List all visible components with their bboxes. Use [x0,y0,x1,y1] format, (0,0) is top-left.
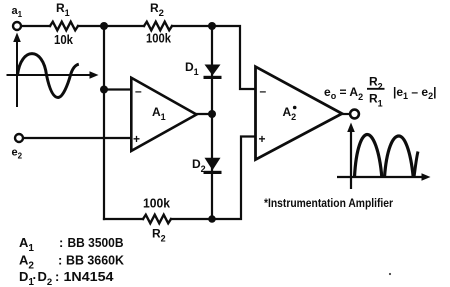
svg-text::: : [55,269,59,284]
svg-text:10k: 10k [54,32,74,47]
svg-text:.: . [33,267,37,282]
svg-text:1N4154: 1N4154 [64,269,115,284]
svg-text:–: – [135,84,142,98]
svg-text:100k: 100k [146,31,172,46]
svg-text::: : [58,253,62,268]
svg-text:*Instrumentation Amplifier: *Instrumentation Amplifier [264,196,393,210]
svg-text:BB 3500B: BB 3500B [68,235,124,250]
svg-text:–: – [260,84,267,98]
svg-text:BB 3660K: BB 3660K [66,253,125,268]
svg-text:+: + [259,132,266,146]
svg-text::: : [59,235,63,250]
svg-text:100k: 100k [143,196,171,211]
svg-text:+: + [133,132,140,146]
